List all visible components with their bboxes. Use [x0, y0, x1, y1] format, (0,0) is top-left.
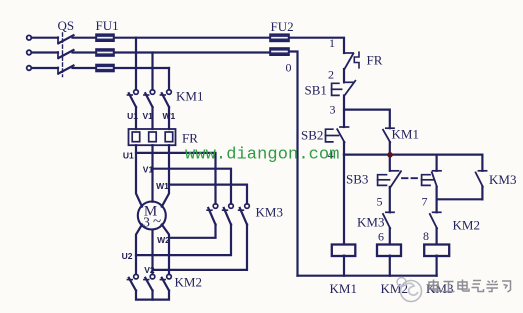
pushbutton SB3 NO — [422, 171, 441, 187]
电 — [458, 280, 469, 292]
FR heater element 2 — [149, 132, 157, 142]
svg-text:KM1: KM1 — [176, 89, 203, 104]
star point stub middle — [151, 291, 153, 300]
svg-text:W1: W1 — [156, 181, 169, 191]
wire node 3 — [343, 96, 345, 128]
node U1 tap — [136, 153, 216, 204]
svg-text:U2: U2 — [122, 251, 133, 261]
svg-text:W1: W1 — [163, 111, 176, 121]
svg-text:3: 3 — [330, 103, 336, 117]
电 — [429, 280, 440, 292]
svg-text:6: 6 — [378, 230, 384, 244]
svg-text:U1: U1 — [123, 151, 134, 161]
svg-text:SB2: SB2 — [301, 128, 323, 143]
relay contact FR NC (control) — [344, 52, 359, 69]
contact KM3 aux mid (NO) — [383, 212, 394, 228]
svg-text:KM3: KM3 — [357, 215, 384, 230]
terminal L2 — [27, 50, 32, 55]
FR heater element 1 — [132, 132, 140, 142]
wire phase2 drop — [151, 53, 153, 90]
contact KM2 aux (NO) — [430, 212, 441, 228]
contactor KM2 main contact 3 — [160, 274, 171, 290]
wire FR to motor U1 — [136, 145, 142, 206]
svg-text:U1: U1 — [127, 111, 138, 121]
wire FR to motor V1 — [151, 145, 153, 202]
contactor KM1 main contact 3 — [160, 90, 171, 107]
工 — [443, 282, 455, 292]
thermal relay FR box — [129, 129, 176, 145]
svg-text:~: ~ — [153, 214, 161, 230]
contactor KM3 main contact 1 — [207, 204, 218, 225]
bottom bus — [298, 275, 437, 277]
wire node 2 — [343, 69, 345, 82]
svg-text:KM2: KM2 — [175, 275, 202, 290]
pushbutton SB2 (NO) — [326, 127, 349, 142]
svg-text:W2: W2 — [157, 235, 170, 245]
svg-text:V1: V1 — [143, 165, 154, 175]
svg-text:FR: FR — [182, 131, 198, 146]
wire KM1 aux to node4 — [389, 142, 391, 154]
svg-text:7: 7 — [422, 195, 428, 209]
wire coil KM3 to bus — [436, 256, 438, 276]
wire node4 to SB3 NC — [389, 155, 391, 171]
fuse FU2 element 2 — [270, 48, 289, 55]
svg-text:SB1: SB1 — [305, 83, 327, 98]
svg-text:KM3: KM3 — [256, 205, 283, 220]
contact KM3 aux right (NO) — [476, 155, 487, 200]
svg-text:2: 2 — [328, 68, 334, 82]
watermark text 电工电气学习 — [429, 280, 511, 293]
fuse FU1 element 2 — [96, 49, 114, 56]
wire L3 to QS — [32, 67, 59, 69]
coil KM2 — [377, 245, 401, 257]
fuse FU2 element 1 — [270, 34, 289, 41]
wire U2 to KM3 c2 — [136, 225, 231, 256]
wire W2 to KM3 c1 — [169, 225, 216, 238]
svg-text:FU2: FU2 — [271, 19, 294, 34]
watermark logo circle — [397, 278, 422, 302]
fuse FU1 element 3 — [96, 65, 114, 72]
node V1 tap — [153, 169, 232, 204]
svg-text:www.diangon.com: www.diangon.com — [185, 146, 340, 165]
svg-text:0: 0 — [286, 61, 292, 75]
contactor KM1 main contact 1 — [127, 90, 138, 107]
svg-text:1: 1 — [329, 36, 335, 50]
node 4 line — [344, 154, 482, 156]
wire V2 to KM3 c3 — [153, 225, 248, 270]
wire FR to motor W1 — [162, 145, 169, 206]
svg-text:V1: V1 — [142, 111, 153, 121]
svg-text:KM3: KM3 — [489, 172, 516, 187]
contactor KM2 main contact 2 — [144, 274, 155, 290]
pushbutton SB3 NC — [378, 171, 401, 189]
junction dot node4 — [387, 152, 393, 158]
terminal L3 — [27, 66, 32, 71]
wire phase3 drop — [168, 68, 170, 90]
svg-text:FR: FR — [367, 53, 383, 68]
contactor KM1 main contact 2 — [144, 90, 155, 107]
气 — [472, 281, 484, 292]
wire KM1 to FR phase1 — [135, 107, 137, 129]
wire motor to W2 lead — [162, 225, 169, 275]
svg-text:KM2: KM2 — [453, 218, 480, 233]
contactor KM3 main contact 3 — [239, 204, 250, 225]
wire L2 to QS — [32, 51, 59, 53]
wire SB3 NC to node 5 / KM3 aux — [389, 187, 391, 212]
wire node 6 to KM2 coil — [389, 228, 391, 244]
wire coil KM1 to bus — [343, 256, 345, 276]
wire motor to U2 lead — [136, 225, 142, 275]
svg-text:SB3: SB3 — [346, 172, 368, 187]
svg-text:8: 8 — [423, 229, 429, 243]
svg-text:KM1: KM1 — [392, 127, 419, 142]
wire QS to FU1 row2 — [73, 51, 97, 53]
svg-text:V2: V2 — [144, 265, 155, 275]
svg-text:5: 5 — [377, 195, 383, 209]
coil KM1 — [332, 245, 356, 257]
wire QS to FU1 row1 — [73, 37, 97, 39]
wire rail 0 — [289, 52, 298, 276]
motor M — [138, 202, 166, 230]
wire coil KM2 to bus — [389, 256, 391, 276]
wire row1 FU1 to FU2 — [114, 37, 270, 39]
terminal L1 — [27, 35, 32, 40]
wire KM1 to FR phase2 — [151, 107, 153, 129]
wire SB2 to node4 — [343, 142, 345, 154]
学 — [487, 280, 499, 292]
wire QS to FU1 row3 — [73, 67, 97, 69]
svg-text:KM1: KM1 — [330, 281, 357, 296]
wire row2 FU1 to FU2 — [114, 51, 270, 53]
wire motor to V2 lead — [151, 230, 153, 275]
QS linkage dashed — [62, 33, 64, 77]
node 7 line — [437, 198, 483, 200]
svg-text:FU1: FU1 — [96, 18, 119, 33]
习 — [502, 281, 511, 292]
node W1 tap — [169, 185, 247, 204]
contactor KM3 main contact 2 — [223, 204, 234, 225]
contact KM1 aux (NO) — [383, 128, 394, 142]
contactor KM2 main contact 1 — [127, 274, 138, 290]
switch QS pole 3 — [58, 66, 74, 74]
pushbutton SB1 (NC) — [332, 81, 356, 96]
wire SB3 NO to node 7 — [436, 187, 438, 212]
coil KM3 — [424, 245, 449, 257]
fuse FU1 element 1 — [96, 34, 114, 41]
switch QS pole 1 — [58, 35, 74, 43]
wire node 1 top — [289, 38, 344, 53]
svg-text:QS: QS — [58, 18, 75, 33]
wire node3 branch to KM1 aux — [344, 110, 390, 129]
wire phase1 drop — [135, 38, 137, 90]
svg-text:3: 3 — [143, 215, 150, 230]
wire main rail to KM1 coil — [343, 155, 345, 245]
wire node4 to SB3 NO — [436, 155, 438, 171]
wire KM1 to FR phase3 — [168, 107, 170, 129]
wire row3 FU1 to drop — [114, 67, 169, 69]
switch QS pole 2 — [58, 50, 74, 58]
FR heater element 3 — [165, 132, 173, 142]
wire L1 to QS — [32, 37, 59, 39]
star point bar under KM2 — [136, 291, 169, 300]
SB3 mechanical link dashed — [402, 177, 419, 179]
wire node 8 to KM3 coil — [436, 228, 438, 244]
